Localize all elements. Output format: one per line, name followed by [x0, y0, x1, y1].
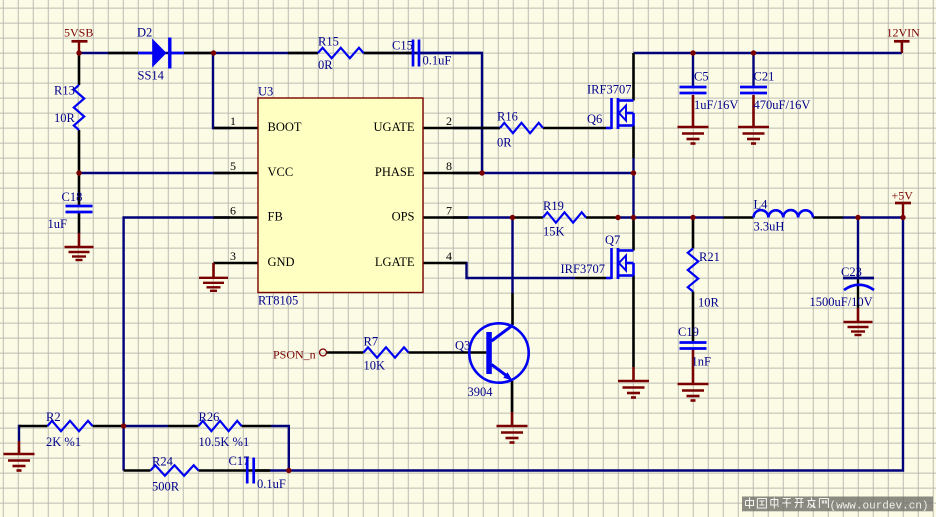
svg-text:4: 4	[446, 249, 452, 263]
wire Q3 collector to OPS row	[511, 218, 513, 294]
svg-text:10R: 10R	[54, 111, 76, 125]
svg-text:R21: R21	[699, 250, 720, 264]
resistor R2	[46, 410, 93, 449]
svg-text:C15: C15	[392, 39, 413, 53]
resistor R26	[199, 410, 250, 449]
resistor R13	[54, 84, 84, 131]
svg-text:C19: C19	[678, 325, 699, 339]
wire PSON_n to R7	[327, 351, 342, 354]
svg-text:1uF/16V: 1uF/16V	[694, 98, 738, 112]
wire R13 bottom pin	[78, 130, 81, 173]
wire C15 through	[406, 52, 482, 54]
resistor R16	[497, 110, 543, 150]
wire R15 right pin to C15	[364, 52, 413, 55]
wire C17 right lead	[253, 469, 270, 472]
capacitor C18	[48, 190, 93, 231]
svg-text:12VIN: 12VIN	[887, 26, 921, 40]
wire R19 left pin	[513, 216, 543, 219]
svg-text:C18: C18	[62, 190, 83, 204]
wire C21 ground lead	[752, 95, 755, 127]
wire R2 right pin	[93, 425, 124, 428]
pin 1 stub	[214, 127, 259, 130]
junction node 10	[631, 215, 636, 220]
svg-text:500R: 500R	[152, 480, 180, 494]
wire D2 anode pin	[108, 52, 138, 55]
resistor R15	[318, 35, 364, 73]
wire +5V feedback down and along bottom	[289, 218, 903, 471]
wire R7 right pin to Q3 base	[409, 351, 487, 354]
wire L4 left pin	[724, 216, 754, 219]
resistor R19	[543, 199, 586, 239]
ground for C23	[844, 322, 873, 335]
svg-text:L4: L4	[754, 198, 769, 212]
wire LGATE pin 4 to Q7 gate	[453, 263, 575, 278]
wire C18 top lead	[78, 173, 81, 207]
wire R2 to R26 row	[19, 426, 21, 441]
svg-text:470uF/16V: 470uF/16V	[754, 98, 811, 112]
wire R15 left pin	[288, 52, 318, 55]
wire UGATE pin 2 to R16	[453, 127, 500, 129]
svg-text:10K: 10K	[364, 359, 386, 373]
wire R26 right corner down	[271, 426, 289, 471]
wire R16 right pin to Q6 gate	[543, 127, 606, 130]
IC U3 RT8105	[258, 84, 423, 307]
svg-text:C23: C23	[841, 265, 862, 279]
svg-text:15K: 15K	[543, 225, 565, 239]
pin 2 stub	[423, 127, 500, 130]
capacitor C17	[229, 454, 286, 491]
pin 4 stub	[423, 262, 467, 265]
wire PHASE node down to OPS row / Q7 drain	[632, 173, 634, 218]
wire C22 ground lead	[857, 308, 860, 322]
wire R2 ground lead	[18, 441, 21, 454]
wire OPS row right of R19	[618, 216, 724, 218]
svg-text:R24: R24	[152, 454, 174, 468]
ground for R2	[4, 454, 35, 471]
wire C17 right to node	[270, 469, 289, 471]
wire C18 ground lead	[78, 233, 81, 247]
wire OPS row	[453, 216, 513, 218]
junction node 2	[211, 50, 216, 55]
ground for C5	[678, 127, 709, 144]
svg-text:IRF3707: IRF3707	[587, 82, 631, 96]
svg-text:R15: R15	[318, 35, 339, 49]
wire BOOT net from D2 cathode down to pin 1	[213, 53, 231, 128]
diode D2 SS14	[137, 26, 184, 83]
wire Q6 drain up to 12V rail	[632, 53, 635, 101]
power port +5V	[892, 188, 914, 217]
wire D2 cathode pin	[184, 52, 214, 55]
junction node 1	[76, 50, 81, 55]
wire R26 left pin	[168, 425, 199, 428]
svg-text:PHASE: PHASE	[375, 165, 415, 179]
wire L4 right to +5V	[843, 216, 903, 218]
svg-text:GND: GND	[268, 255, 295, 269]
wire Q3 collector pin	[511, 293, 514, 325]
watermark	[742, 497, 933, 513]
wire L4 right pin	[813, 216, 843, 219]
svg-text:IRF3707: IRF3707	[561, 262, 605, 276]
svg-text:8: 8	[446, 159, 452, 173]
svg-text:OPS: OPS	[392, 210, 415, 224]
svg-text:FB: FB	[268, 210, 283, 224]
svg-text:C5: C5	[694, 70, 709, 84]
junction node 9	[615, 215, 620, 220]
svg-text:PSON_n: PSON_n	[273, 347, 316, 361]
wire C5 ground lead	[692, 95, 695, 127]
junction node 6	[479, 170, 484, 175]
svg-text:1uF: 1uF	[48, 217, 68, 231]
svg-text:Q6: Q6	[587, 112, 602, 126]
wire C19 ground lead	[692, 349, 695, 384]
svg-text:R13: R13	[54, 84, 75, 98]
wire Q7 drain up	[632, 218, 635, 251]
svg-text:U3: U3	[258, 84, 273, 98]
svg-text:R2: R2	[46, 410, 61, 424]
transistor Q3 3904	[455, 323, 529, 399]
wire C21 top lead	[752, 53, 754, 87]
svg-text:3904: 3904	[468, 385, 494, 399]
junction node 13	[900, 215, 905, 220]
pin 6 stub	[214, 216, 259, 219]
wire Q7 ground lead	[632, 367, 635, 381]
wire PHASE row pin 8 to Q6 source	[453, 172, 634, 174]
wire C22 top lead	[857, 218, 859, 280]
net port PSON_n	[273, 347, 327, 361]
wire R13 top pin	[78, 53, 81, 85]
wire R26 right pin	[242, 425, 272, 428]
inductor L4	[754, 198, 814, 234]
svg-text:SS14: SS14	[138, 68, 165, 82]
wire R21 top pin	[692, 218, 695, 249]
junction node 15	[286, 468, 291, 473]
svg-text:1500uF/10V: 1500uF/10V	[810, 295, 873, 309]
svg-text:R26: R26	[199, 410, 220, 424]
wire C5 top lead	[692, 53, 694, 87]
junction node 12	[855, 215, 860, 220]
svg-text:R19: R19	[543, 199, 564, 213]
svg-text:R7: R7	[364, 335, 379, 349]
wire Q3 emitter pin	[511, 381, 514, 412]
wire VCC row from R13/C18 node to pin 5	[79, 172, 230, 174]
junction node 8	[510, 215, 515, 220]
junction node 7	[631, 170, 636, 175]
ground for C21	[738, 127, 769, 144]
svg-text:RT8105: RT8105	[258, 293, 298, 307]
svg-text:2: 2	[446, 114, 452, 128]
wire Q6 source lower segment	[632, 158, 634, 173]
junction node 11	[690, 215, 695, 220]
svg-text:C17: C17	[229, 454, 250, 468]
wire pin3 ground lead	[212, 263, 215, 278]
capacitor C23 polarized	[810, 265, 875, 309]
svg-text:2K %1: 2K %1	[46, 435, 81, 449]
capacitor C15	[392, 39, 451, 68]
wire FB pin 6 to feedback divider	[124, 218, 230, 471]
wire R7 left pin	[342, 351, 364, 354]
svg-text:0.1uF: 0.1uF	[257, 477, 286, 491]
pin 8 stub	[423, 172, 482, 175]
svg-text:Q7: Q7	[605, 233, 620, 247]
svg-text:C21: C21	[754, 70, 775, 84]
junction node 3	[690, 50, 695, 55]
wire R21 bottom pin to C19	[692, 292, 695, 342]
wire C18 bottom lead	[78, 212, 81, 234]
wire Q7 source down	[632, 276, 635, 368]
wire 5VSB rail to C15 corner down to PHASE	[79, 52, 318, 54]
svg-text:6: 6	[230, 204, 236, 218]
svg-text:LGATE: LGATE	[375, 255, 415, 269]
junction node 14	[121, 423, 126, 428]
junction node 4	[751, 50, 756, 55]
svg-text:D2: D2	[137, 26, 152, 40]
svg-text:UGATE: UGATE	[374, 120, 415, 134]
svg-text:3.3uH: 3.3uH	[754, 220, 785, 234]
wire Q6 source down to PHASE	[632, 126, 635, 159]
svg-text:0R: 0R	[497, 136, 512, 150]
pin 7 stub	[423, 216, 468, 219]
svg-text:Q3: Q3	[455, 339, 470, 353]
ground for Q3	[497, 426, 528, 443]
svg-text:10.5K %1: 10.5K %1	[199, 435, 250, 449]
pin 5 stub	[214, 172, 259, 175]
wire R19 right pin	[586, 216, 618, 219]
svg-text:7: 7	[446, 204, 452, 218]
capacitor C21	[740, 70, 810, 113]
capacitor C19	[678, 325, 711, 368]
svg-text:(www.ourdev.cn): (www.ourdev.cn)	[830, 500, 929, 512]
wire R2 left pin	[19, 425, 48, 428]
svg-text:5: 5	[230, 159, 236, 173]
ground for C19	[678, 384, 709, 401]
ground for C18	[65, 247, 94, 260]
svg-text:1nF: 1nF	[692, 354, 712, 368]
svg-text:5VSB: 5VSB	[64, 26, 93, 40]
svg-text:VCC: VCC	[268, 165, 294, 179]
transistor Q6 IRF3707	[587, 82, 634, 129]
wire R24 left pin	[124, 469, 151, 472]
wire 12V rail	[634, 52, 902, 54]
svg-text:+5V: +5V	[892, 188, 914, 202]
pin 3 stub	[214, 262, 259, 265]
resistor R21	[688, 249, 720, 310]
power port 5VSB	[64, 26, 93, 54]
wire R24 right pin to C17	[199, 469, 271, 472]
resistor R7	[364, 335, 409, 373]
svg-text:0R: 0R	[318, 58, 333, 72]
ground for pin 3	[199, 278, 228, 291]
svg-text:10R: 10R	[698, 295, 720, 309]
svg-text:3: 3	[230, 249, 236, 263]
transistor Q7 IRF3707	[561, 233, 634, 279]
svg-text:R16: R16	[497, 110, 518, 124]
wire Q3 ground lead	[511, 412, 514, 426]
svg-text:0.1uF: 0.1uF	[423, 54, 452, 68]
wire Q7 gate pin	[575, 277, 606, 280]
ground for Q7	[618, 381, 649, 398]
resistor R24	[151, 454, 199, 493]
svg-text:1: 1	[230, 114, 236, 128]
junction node 5	[76, 170, 81, 175]
power port 12VIN	[887, 26, 921, 54]
svg-text:BOOT: BOOT	[268, 120, 302, 134]
capacitor C5	[680, 70, 739, 113]
